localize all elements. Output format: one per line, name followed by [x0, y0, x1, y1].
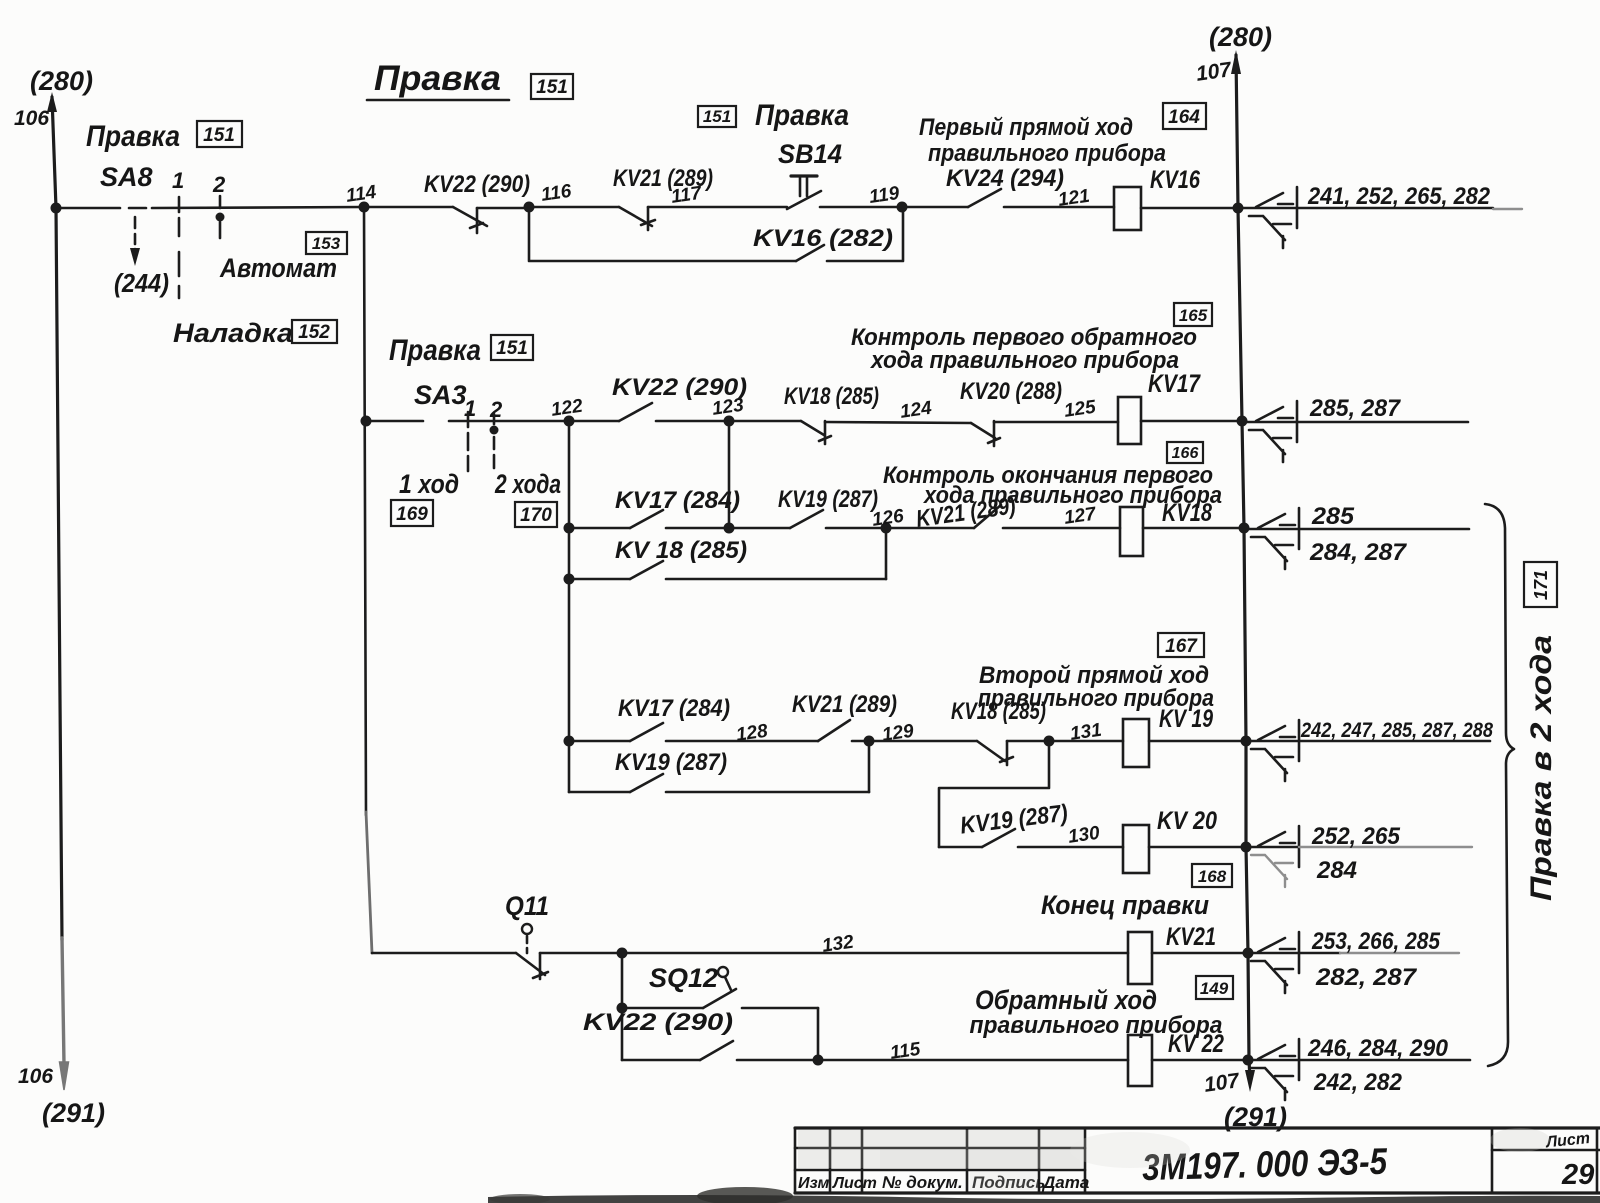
- title block label Лист (right): [1544, 1130, 1590, 1152]
- label KV19 (287) row2a: [778, 486, 878, 513]
- label KV24 (294): [946, 165, 1064, 192]
- label 2 хода: [494, 469, 561, 499]
- svg-text:Обратный ход: Обратный ход: [975, 985, 1157, 1015]
- right bus node 107 (280)-(291): [1231, 50, 1255, 1092]
- wire label 125: [1063, 397, 1098, 422]
- svg-text:SB14: SB14: [778, 139, 842, 169]
- svg-text:121: 121: [1057, 186, 1091, 211]
- node label 106 bottom: [18, 1065, 53, 1088]
- contact references KV18 (row3): [1243, 508, 1299, 569]
- svg-text:130: 130: [1067, 823, 1102, 848]
- svg-text:Правка: Правка: [86, 120, 180, 153]
- title block label Лист: [832, 1175, 877, 1192]
- heading row1 Первый прямой ход правильного прибора: [919, 114, 1166, 167]
- svg-text:107: 107: [1195, 58, 1234, 86]
- box 165: [1174, 303, 1212, 326]
- sheet title Правка: [367, 59, 509, 100]
- svg-text:153: 153: [312, 234, 341, 253]
- wire Z-link node131 to KV20 row: [939, 741, 1049, 847]
- contact KV22 (290) row1: [364, 207, 529, 233]
- svg-text:122: 122: [550, 396, 585, 421]
- contact KV17 (284) row2a: [569, 510, 729, 528]
- label Правка в 2 хода (vertical): [1525, 635, 1558, 901]
- svg-text:Автомат: Автомат: [219, 253, 337, 283]
- svg-text:151: 151: [703, 107, 731, 126]
- svg-text:107: 107: [1203, 1069, 1242, 1097]
- wire label 121: [1057, 186, 1091, 211]
- svg-text:KV18: KV18: [1162, 499, 1212, 527]
- contact KV22 (290) row2: [569, 403, 729, 421]
- wire vertical node123 to branch: [728, 421, 731, 528]
- junction SQ12 branch / row7: [813, 1055, 824, 1066]
- svg-text:KV17 (284): KV17 (284): [618, 695, 730, 722]
- svg-text:KV18 (285): KV18 (285): [951, 698, 1046, 725]
- svg-text:Изм: Изм: [798, 1175, 829, 1192]
- label KV22 (290) row7: [583, 1009, 733, 1036]
- svg-text:KV16 (282): KV16 (282): [753, 225, 893, 252]
- label KV22 (290) row1: [424, 171, 530, 198]
- left bus node 106 (280)-(291): [47, 92, 69, 1090]
- pushbutton SB14: [778, 139, 902, 209]
- svg-text:KV18 (285): KV18 (285): [784, 383, 879, 410]
- box 151 (SA8): [197, 121, 242, 147]
- svg-text:149: 149: [1200, 979, 1229, 998]
- svg-text:KV 20: KV 20: [1157, 807, 1217, 835]
- document number 3М197.000 ЭЗ-5: [1142, 1141, 1389, 1188]
- svg-text:KV19 (287): KV19 (287): [615, 749, 727, 776]
- svg-text:Правка в 2 хода: Правка в 2 хода: [1525, 635, 1558, 901]
- wire row7 to coil KV22: [818, 1059, 1128, 1062]
- svg-text:№ докум.: № докум.: [882, 1173, 963, 1192]
- svg-text:2: 2: [212, 172, 226, 197]
- box 167: [1158, 633, 1204, 657]
- node label 107 top: [1195, 58, 1234, 86]
- label KV21 (289) row1: [613, 165, 713, 192]
- contact references KV20 (row5): [1243, 826, 1299, 867]
- node 116: [524, 181, 574, 213]
- wire vertical from node 114: [364, 207, 372, 953]
- label Автомат: [219, 253, 337, 283]
- svg-text:KV 18 (285): KV 18 (285): [615, 537, 747, 564]
- svg-text:хода правильного прибора: хода правильного прибора: [869, 347, 1179, 374]
- svg-text:1: 1: [464, 396, 476, 421]
- svg-text:Правка: Правка: [389, 334, 481, 367]
- svg-text:KV17: KV17: [1148, 370, 1201, 398]
- branch row2a junction on 122 vertical: [564, 523, 575, 534]
- svg-text:KV 22: KV 22: [1168, 1030, 1224, 1058]
- svg-text:KV24 (294): KV24 (294): [946, 165, 1064, 192]
- svg-text:Правка: Правка: [374, 59, 501, 98]
- svg-text:117: 117: [670, 183, 704, 208]
- wire label 117: [670, 183, 704, 208]
- svg-text:KV22 (290): KV22 (290): [583, 1009, 733, 1036]
- SA8 position arrow to (244): [130, 217, 140, 266]
- wire row2 from node114 vertical: [361, 416, 570, 427]
- svg-text:2: 2: [489, 397, 503, 422]
- box 170: [515, 502, 557, 527]
- svg-text:SA8: SA8: [100, 162, 153, 192]
- svg-text:252, 265: 252, 265: [1311, 823, 1401, 850]
- svg-text:253, 266, 285: 253, 266, 285: [1311, 928, 1440, 955]
- svg-text:KV19 (287): KV19 (287): [778, 486, 878, 513]
- svg-text:152: 152: [298, 322, 330, 343]
- heading Обратный ход правильного прибора: [970, 985, 1223, 1039]
- brace Правка в 2 хода: [1485, 504, 1514, 1066]
- box 149: [1196, 976, 1233, 999]
- wire label 132: [821, 932, 856, 957]
- contact KV21 (289) row2a: [886, 505, 1120, 528]
- svg-text:Q11: Q11: [505, 891, 549, 921]
- svg-text:151: 151: [496, 338, 528, 359]
- box 168: [1192, 864, 1232, 887]
- svg-text:119: 119: [868, 183, 901, 208]
- box 151 (title): [531, 74, 573, 99]
- svg-text:114: 114: [345, 182, 378, 207]
- svg-text:168: 168: [1198, 867, 1227, 886]
- coil KV18: [1120, 499, 1250, 556]
- svg-text:285: 285: [1311, 503, 1355, 530]
- contact KV21 (289) row1: [529, 207, 787, 230]
- wire label 128: [735, 721, 770, 746]
- heading Контроль первого обратного хода правильного прибора: [851, 324, 1197, 374]
- contact references KV19 (row4): [1243, 720, 1299, 781]
- node label (291) bottom-left: [42, 1098, 105, 1128]
- label KV19 (287) row5: [959, 800, 1069, 840]
- svg-text:284: 284: [1316, 857, 1357, 884]
- label Правка (SA8): [86, 120, 180, 153]
- label KV18 (285) row2: [784, 383, 879, 410]
- svg-text:правильного прибора: правильного прибора: [928, 140, 1166, 167]
- box 151 (SA3): [491, 335, 533, 360]
- wire node131 to coil KV19: [1049, 740, 1123, 743]
- svg-text:(291): (291): [42, 1098, 105, 1128]
- contact KV18 (285) row2: [729, 421, 971, 444]
- sheet number 29: [1561, 1159, 1594, 1191]
- wire row1 left bus to SA8: [51, 203, 365, 214]
- coil KV17: [1118, 370, 1248, 444]
- contact KV19 (287) row5: [939, 829, 1123, 847]
- box 166: [1167, 442, 1203, 463]
- coil KV16: [1114, 166, 1244, 230]
- box 151 (SB14): [698, 106, 736, 127]
- label Правка (SA3): [389, 334, 481, 367]
- svg-text:123: 123: [711, 395, 746, 420]
- node junction row6/SQ12: [617, 948, 628, 959]
- coil KV19: [1123, 705, 1252, 767]
- coil KV21: [1128, 923, 1254, 984]
- branch row4 junction on 122 vertical: [564, 736, 575, 747]
- svg-text:SA3: SA3: [414, 380, 467, 410]
- breaker Q11: [505, 891, 622, 979]
- wire label 115: [889, 1039, 922, 1064]
- wire label 127: [1063, 503, 1099, 528]
- node label (244): [114, 268, 169, 298]
- svg-text:KV22 (290): KV22 (290): [424, 171, 530, 198]
- svg-text:KV 19: KV 19: [1159, 705, 1213, 733]
- label Правка (SB14): [755, 99, 849, 132]
- svg-text:242, 247, 285, 287, 288: 242, 247, 285, 287, 288: [1300, 719, 1493, 742]
- node 126: [871, 506, 906, 534]
- svg-text:SQ12: SQ12: [649, 963, 718, 993]
- svg-text:KV21: KV21: [1166, 923, 1216, 951]
- svg-text:171: 171: [1531, 570, 1551, 600]
- svg-text:242, 282: 242, 282: [1313, 1069, 1403, 1096]
- label KV18 (285) row2b: [615, 537, 747, 564]
- junction node123 vertical bottom: [724, 523, 735, 534]
- title block label Дата: [1041, 1173, 1089, 1192]
- svg-text:116: 116: [540, 181, 573, 206]
- label KV18 (285) row4: [951, 698, 1046, 725]
- label KV17 (284) row4: [618, 695, 730, 722]
- svg-text:1: 1: [172, 168, 184, 193]
- svg-text:151: 151: [536, 77, 568, 98]
- label 1 ход: [399, 469, 459, 499]
- contact references KV21 (row6): [1243, 932, 1299, 993]
- svg-text:2 хода: 2 хода: [494, 469, 561, 499]
- svg-text:125: 125: [1063, 397, 1098, 422]
- label KV17 (284) row2a: [615, 487, 740, 514]
- contact references KV17 (row2): [1241, 401, 1297, 462]
- svg-text:KV17 (284): KV17 (284): [615, 487, 740, 514]
- node label (280) top-left: [30, 66, 93, 96]
- svg-text:282, 287: 282, 287: [1315, 964, 1418, 991]
- contact KV22 (290) row7: [622, 1041, 818, 1060]
- label KV21 (289) row4: [792, 691, 897, 718]
- svg-text:Лист: Лист: [832, 1175, 877, 1192]
- svg-text:115: 115: [889, 1039, 922, 1064]
- contact KV18 (285) row2b: [569, 528, 886, 579]
- node 122: [550, 396, 585, 427]
- label KV19 (287) row4b: [615, 749, 727, 776]
- box 164: [1163, 103, 1206, 129]
- svg-text:241, 252, 265, 282: 241, 252, 265, 282: [1307, 183, 1490, 210]
- title block label Подпись: [972, 1173, 1045, 1192]
- svg-text:Правка: Правка: [755, 99, 849, 132]
- switch SA3: [414, 380, 503, 471]
- node label (280) top-right: [1209, 22, 1272, 52]
- svg-text:KV21 (289): KV21 (289): [792, 691, 897, 718]
- wire vertical 622 down: [621, 953, 624, 1060]
- svg-text:164: 164: [1168, 107, 1200, 128]
- svg-text:246, 284, 290: 246, 284, 290: [1307, 1035, 1449, 1062]
- svg-text:151: 151: [203, 125, 235, 146]
- contact KV21 (289) row4: [818, 720, 869, 741]
- svg-text:Первый прямой ход: Первый прямой ход: [919, 114, 1133, 141]
- wire vertical from node 122: [568, 421, 571, 792]
- svg-text:167: 167: [1165, 636, 1198, 657]
- heading Второй прямой ход правильного прибора: [978, 662, 1214, 712]
- svg-text:124: 124: [899, 398, 934, 423]
- svg-text:285, 287: 285, 287: [1309, 395, 1402, 422]
- paper smudges: [798, 1128, 1550, 1190]
- label Конец правки: [1041, 890, 1209, 920]
- svg-text:Конец правки: Конец правки: [1041, 890, 1209, 920]
- svg-text:284, 287: 284, 287: [1309, 539, 1408, 566]
- svg-text:KV19 (287): KV19 (287): [959, 800, 1069, 840]
- wire row6 to coil KV21: [622, 952, 1128, 955]
- coil KV20: [1123, 807, 1252, 873]
- branch contact KV16 (282): [529, 208, 903, 261]
- contact KV17 (284) row4: [569, 723, 818, 741]
- wire row6 from 114 vertical: [372, 952, 516, 955]
- label Наладка: [173, 318, 293, 348]
- svg-text:KV20 (288): KV20 (288): [960, 378, 1062, 405]
- title block: [795, 1128, 1600, 1193]
- svg-text:165: 165: [1179, 306, 1208, 325]
- node 129: [864, 721, 916, 747]
- box 169: [391, 500, 433, 526]
- branch contact KV19 (287) row4b: [569, 741, 869, 792]
- node 131: [1044, 720, 1104, 747]
- coil KV22: [1128, 1030, 1254, 1086]
- box 171 (rotated): [1524, 562, 1557, 607]
- svg-text:170: 170: [520, 505, 552, 526]
- svg-text:128: 128: [735, 721, 770, 746]
- branch row2b junction on 122 vertical: [564, 574, 575, 585]
- svg-text:29: 29: [1561, 1159, 1594, 1191]
- svg-text:106: 106: [14, 107, 49, 130]
- contact KV24 (294): [902, 189, 1114, 207]
- limit switch SQ12: [617, 963, 819, 1060]
- node label 106 top: [14, 107, 49, 130]
- node label 107 bottom: [1203, 1069, 1242, 1097]
- wire label 130: [1067, 823, 1102, 848]
- svg-text:(244): (244): [114, 268, 169, 298]
- svg-text:Наладка: Наладка: [173, 318, 293, 348]
- svg-text:(280): (280): [30, 66, 93, 96]
- node 123: [711, 395, 746, 427]
- node 114: [345, 182, 378, 213]
- box 152: [292, 320, 337, 343]
- svg-text:166: 166: [1172, 445, 1199, 462]
- contact references KV16 (row1): [1241, 187, 1297, 248]
- label KV21 (289) row2a: [914, 492, 1017, 533]
- box 153: [306, 232, 347, 254]
- svg-text:(280): (280): [1209, 22, 1272, 52]
- svg-text:Лист: Лист: [1544, 1130, 1590, 1152]
- svg-text:106: 106: [18, 1065, 53, 1088]
- contact KV19 (287) row2a: [729, 510, 886, 528]
- contact references KV22 (row7): [1243, 1039, 1299, 1100]
- wire label 124: [899, 398, 934, 423]
- paper bottom edge: [488, 1187, 1600, 1203]
- svg-text:Дата: Дата: [1041, 1173, 1089, 1192]
- label KV16 (282): [753, 225, 893, 252]
- title block label Изм: [798, 1175, 829, 1192]
- contact KV18 (285) row4: [869, 741, 1049, 765]
- node 119: [868, 183, 908, 213]
- contact KV20 (288) row2: [971, 421, 1118, 446]
- label KV20 (288) row2: [960, 378, 1062, 405]
- label KV22 (290) row2: [612, 374, 747, 401]
- heading Контроль окончания первого хода правильного прибора: [883, 462, 1222, 509]
- svg-text:KV16: KV16: [1150, 166, 1201, 194]
- svg-text:1 ход: 1 ход: [399, 469, 459, 499]
- svg-text:169: 169: [396, 504, 428, 525]
- node label (291) bottom-right: [1224, 1102, 1287, 1132]
- title block label № докум.: [882, 1173, 963, 1192]
- switch SA8: [100, 162, 226, 298]
